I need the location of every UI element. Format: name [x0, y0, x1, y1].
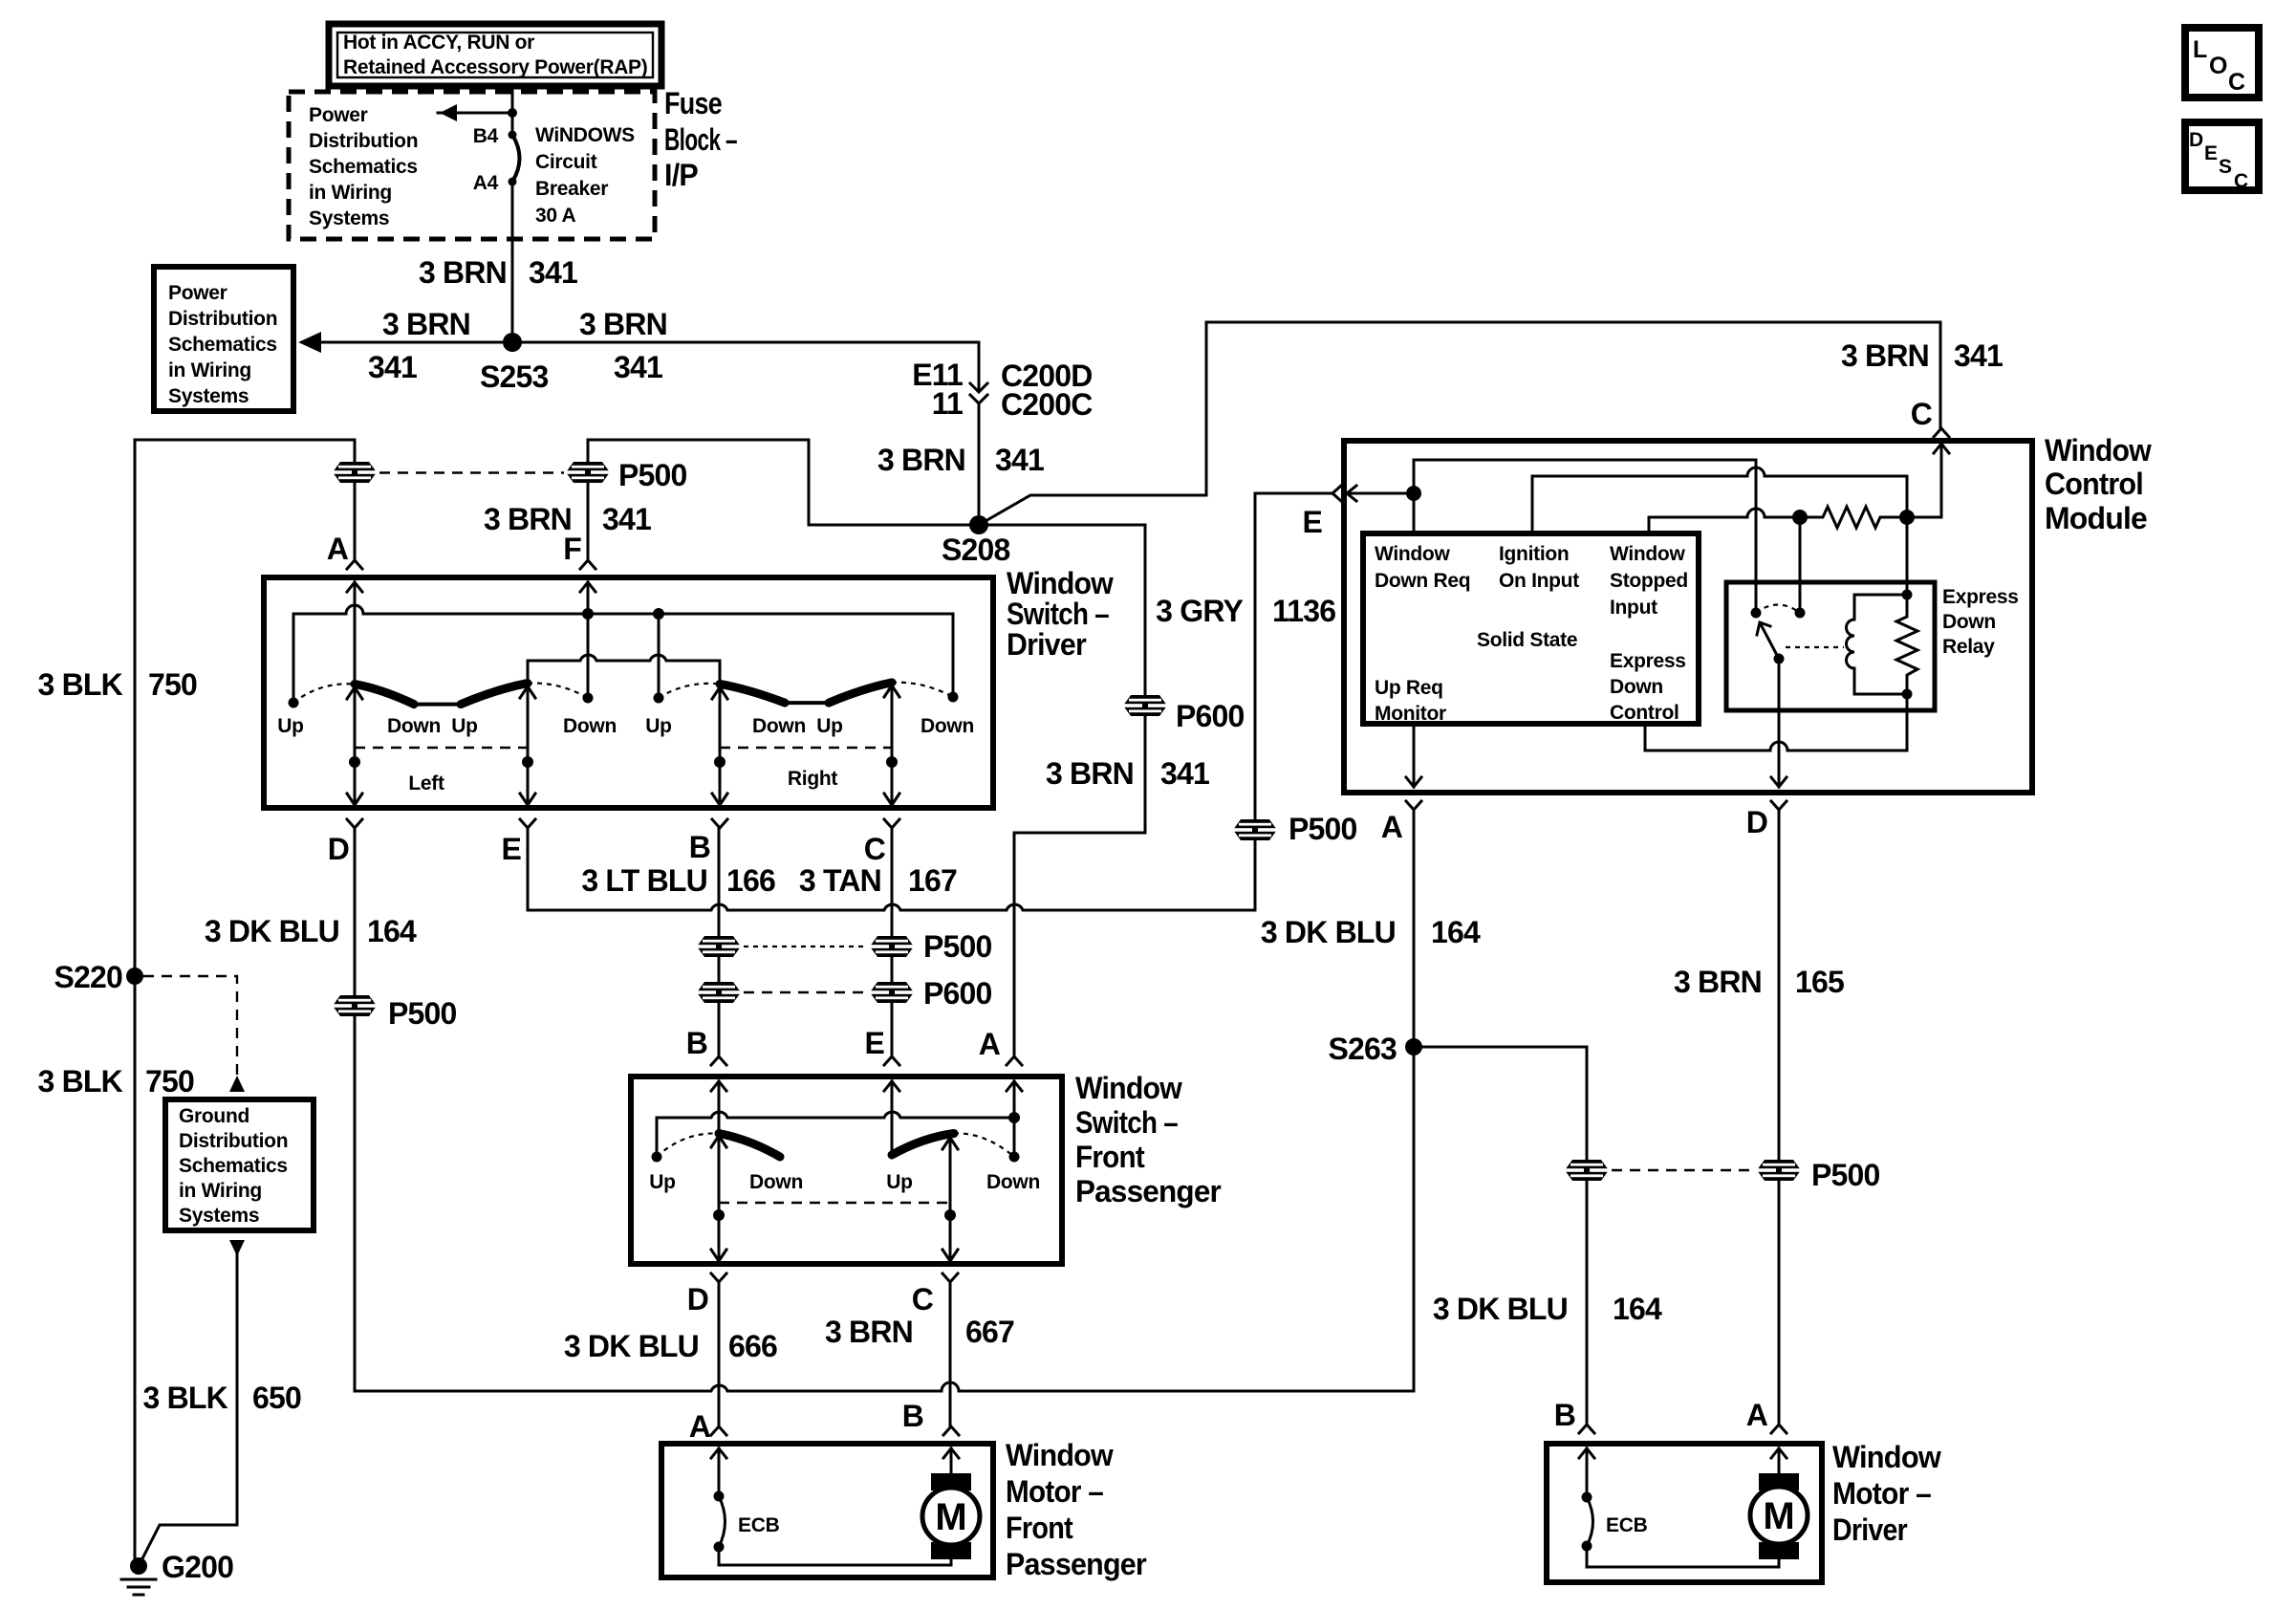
wire driver C pin down to passenger pin E [891, 828, 894, 1056]
pole B wire with arrows [712, 687, 727, 805]
wire window stopped input to resistor line [1649, 509, 1800, 533]
wire express down control to relay [1645, 694, 1907, 751]
svg-text:F: F [563, 532, 581, 566]
relay switch lever [1757, 622, 1779, 659]
svg-text:Hot in ACCY, RUN or: Hot in ACCY, RUN or [343, 32, 534, 54]
svg-text:Power: Power [168, 282, 227, 304]
resistor R1 [1800, 507, 1907, 528]
svg-text:E: E [1302, 505, 1322, 539]
right Down contact [1009, 1152, 1020, 1163]
dashed pairing line P500 [379, 471, 564, 473]
svg-text:3 BLK: 3 BLK [38, 1064, 123, 1099]
right rocker contacts switch [720, 683, 892, 703]
wire S263 branch to motor driver pin B [1414, 1047, 1587, 1425]
svg-text:164: 164 [1431, 915, 1481, 949]
svg-text:Distribution: Distribution [168, 308, 277, 330]
svg-text:A: A [979, 1027, 1001, 1061]
svg-text:Window: Window [1610, 543, 1685, 565]
pin B internal arrow [943, 1448, 959, 1476]
wire bus left end to Up contact [292, 614, 295, 703]
svg-text:341: 341 [368, 350, 417, 384]
svg-text:P600: P600 [923, 976, 992, 1011]
svg-text:750: 750 [148, 667, 197, 702]
svg-text:666: 666 [728, 1329, 777, 1363]
solid state labels [1375, 543, 1688, 725]
right rocker mechanical dashed link [720, 747, 892, 749]
svg-text:341: 341 [529, 255, 577, 290]
svg-text:P500: P500 [923, 929, 992, 964]
svg-text:Control: Control [1610, 702, 1679, 724]
wire ground loop: switch pin A up and left, down to G200 [135, 440, 355, 1566]
svg-text:L: L [2193, 36, 2207, 63]
fuse block dashed box [289, 92, 655, 239]
wire label 3 BRN 341 top right [1841, 338, 2003, 373]
pin C marker [1911, 397, 1949, 437]
wire E node up over to relay left contact [1414, 460, 1756, 613]
right rocker dashed travel [659, 684, 720, 698]
svg-text:D: D [687, 1282, 708, 1316]
svg-text:3 DK BLU: 3 DK BLU [1261, 915, 1396, 949]
relay common [1774, 654, 1785, 664]
ECB element driver [1582, 1492, 1648, 1552]
wire passenger D to motor A [718, 1282, 721, 1426]
connector P600 on C wire [870, 976, 992, 1011]
svg-text:B: B [686, 1026, 707, 1060]
wire S208 down through P600 to passenger pin A [1014, 525, 1145, 1056]
wire up req monitor to pin A [1406, 724, 1421, 787]
svg-text:Distribution: Distribution [179, 1130, 288, 1152]
svg-text:Control: Control [2045, 467, 2143, 501]
ECB to motor bottom wire [719, 1547, 951, 1565]
window switch driver box [264, 577, 993, 808]
svg-text:Up: Up [645, 715, 671, 737]
pin B internal arrow [1579, 1448, 1594, 1497]
svg-text:3 GRY: 3 GRY [1156, 594, 1243, 628]
svg-text:Monitor: Monitor [1375, 703, 1446, 725]
right rocker switch [892, 1134, 954, 1156]
svg-text:Fuse: Fuse [664, 86, 722, 120]
svg-text:Down: Down [752, 715, 806, 737]
mechanical dashed link [719, 1202, 950, 1204]
pin B internal arrow and wire [711, 1081, 726, 1134]
LOC box [2185, 28, 2259, 98]
relay coil L1 [1847, 590, 1913, 695]
pin E internal arrow and wire [884, 1081, 899, 1155]
ECB element [714, 1491, 780, 1553]
svg-text:Input: Input [1610, 597, 1657, 619]
svg-text:650: 650 [252, 1381, 301, 1415]
pin A marker [1746, 1398, 1787, 1433]
left rocker dashed travel [657, 1133, 719, 1157]
circuit breaker B4 terminal [509, 131, 517, 140]
svg-text:C: C [1911, 397, 1933, 431]
wire from hot box into fuse block [511, 87, 514, 135]
svg-text:667: 667 [965, 1315, 1014, 1349]
bus junction at F [582, 608, 594, 620]
wire S208 to window control module pin C [979, 322, 1940, 525]
svg-text:Passenger: Passenger [1006, 1547, 1146, 1581]
wire label 3 BLK 650 [143, 1381, 301, 1415]
DESC box [2185, 122, 2259, 192]
svg-text:Express: Express [1942, 586, 2019, 608]
connector P500 on 164 wire [1565, 1160, 1609, 1181]
svg-text:Passenger: Passenger [1075, 1174, 1221, 1208]
left rocker mechanical dashed link [355, 747, 528, 749]
express down relay label [1942, 586, 2019, 658]
svg-text:A: A [1381, 810, 1403, 844]
wire E node down to solid state [1413, 493, 1416, 533]
arrow to power distribution schematics [438, 104, 517, 121]
svg-text:3 BRN: 3 BRN [1841, 338, 1929, 373]
svg-text:A: A [689, 1409, 711, 1444]
ECB to motor bottom wire [1587, 1546, 1779, 1567]
svg-text:S263: S263 [1328, 1032, 1397, 1066]
circuit breaker A4 terminal [509, 178, 517, 186]
wire label 3 BRN 341 below P600 [1046, 756, 1209, 791]
connector P500 on 165 wire [1757, 1158, 1880, 1192]
bus junction right [653, 608, 664, 620]
svg-text:3 BRN: 3 BRN [579, 307, 667, 341]
svg-text:Systems: Systems [168, 385, 249, 407]
hot in ACCY box (double border) [329, 24, 661, 86]
svg-text:C: C [864, 832, 886, 866]
svg-text:D: D [328, 832, 349, 866]
svg-text:167: 167 [908, 863, 957, 898]
pin D marker [1746, 801, 1787, 839]
svg-text:3 BRN: 3 BRN [1046, 756, 1134, 791]
svg-text:M: M [935, 1496, 966, 1538]
pin F marker [563, 532, 596, 569]
wire driver B pin down to passenger pin B [718, 828, 721, 1056]
pin C marker [912, 1273, 958, 1316]
relay left contact [1751, 608, 1762, 619]
svg-text:S: S [2219, 156, 2232, 178]
svg-text:Schematics: Schematics [168, 334, 277, 356]
node S253 [503, 333, 522, 352]
pin A marker [1381, 801, 1421, 844]
svg-text:Front: Front [1075, 1140, 1145, 1174]
pin A internal arrow and wire [1007, 1081, 1022, 1157]
right Up contact [654, 693, 664, 704]
svg-text:Module: Module [2045, 501, 2147, 535]
svg-text:B: B [902, 1399, 923, 1433]
wire passenger C to motor B [949, 1282, 952, 1426]
svg-text:WiNDOWS: WiNDOWS [535, 124, 635, 146]
svg-text:341: 341 [614, 350, 662, 384]
wire label 3 BLK 750 upper [38, 667, 197, 702]
wire label 3 BRN 341 [419, 255, 577, 290]
window motor front passenger box [661, 1444, 993, 1577]
pin A marker [979, 1027, 1022, 1065]
window switch front passenger label [1075, 1071, 1221, 1208]
svg-text:M: M [1763, 1495, 1794, 1537]
internal bus to Up contact [657, 1112, 1014, 1118]
svg-text:S208: S208 [942, 533, 1010, 567]
dashed wire S220 to ground distribution box [143, 976, 237, 1075]
svg-text:Power: Power [309, 104, 368, 126]
pin E internal arrow and wire [1347, 486, 1421, 501]
svg-text:3 DK BLU: 3 DK BLU [205, 914, 339, 948]
svg-text:Down: Down [563, 715, 617, 737]
svg-text:ECB: ECB [1606, 1514, 1648, 1536]
power distribution note in fuse box [309, 104, 418, 229]
svg-text:Down: Down [387, 715, 441, 737]
svg-text:164: 164 [367, 914, 417, 948]
wire relay right contact [1799, 517, 1802, 613]
wire breaker to S253 [511, 182, 514, 342]
pin E marker [1302, 486, 1341, 539]
svg-text:I/P: I/P [664, 158, 698, 192]
svg-text:Down: Down [1610, 676, 1663, 698]
ground G200 [121, 1550, 233, 1595]
svg-text:Front: Front [1006, 1511, 1073, 1545]
svg-text:C: C [2234, 170, 2248, 192]
wire label 3 DK BLU 164 lower [1433, 1292, 1662, 1326]
svg-text:Up: Up [816, 715, 842, 737]
svg-text:750: 750 [145, 1064, 194, 1099]
pin F internal arrow and wire [580, 582, 596, 614]
svg-text:Window: Window [1375, 543, 1450, 565]
connector C200D / C200C (E11 / 11) [970, 342, 987, 403]
right throws bus from E contact [528, 655, 720, 684]
wire S253 to E11 connector [512, 342, 979, 384]
right rocker dashed travel [954, 1133, 1014, 1157]
pin B marker [1554, 1398, 1594, 1433]
window control module box [1344, 441, 2032, 793]
pin A internal arrow [711, 1448, 726, 1496]
wire label 3 BRN 341 on F wire [484, 502, 651, 536]
wire label 3 BRN 341 above S208 [877, 443, 1044, 477]
svg-text:Right: Right [788, 768, 837, 790]
svg-text:Up Req: Up Req [1375, 677, 1443, 699]
svg-text:341: 341 [1160, 756, 1209, 791]
svg-text:341: 341 [995, 443, 1044, 477]
left Down contact [583, 693, 594, 704]
wire label 3 DK BLU 666 [564, 1329, 777, 1363]
pin C internal arrow and wire [1907, 444, 1949, 517]
svg-text:P600: P600 [1176, 699, 1245, 733]
svg-text:166: 166 [726, 863, 775, 898]
dashed pairing line P500 mid [744, 946, 868, 947]
window motor driver label [1832, 1440, 1941, 1547]
pin A marker [689, 1409, 726, 1444]
node S208 [809, 524, 1145, 527]
left rocker switch [719, 1134, 780, 1158]
connector P500 on F wire [566, 458, 687, 492]
svg-text:Window: Window [2045, 433, 2152, 468]
window switch driver label [1007, 566, 1114, 662]
svg-text:Distribution: Distribution [309, 130, 418, 152]
svg-text:Driver: Driver [1007, 627, 1086, 662]
svg-text:S220: S220 [54, 960, 122, 994]
wire label 3 GRY 1136 [1156, 594, 1335, 628]
svg-text:Down: Down [986, 1171, 1040, 1193]
svg-text:P500: P500 [1289, 812, 1357, 846]
left rocker contacts switch [355, 684, 528, 705]
svg-text:C: C [2228, 69, 2245, 96]
connector P600 on 3 BRN wire [1123, 695, 1245, 733]
svg-text:3 BRN: 3 BRN [382, 307, 470, 341]
wire F pin loop to S208 [588, 440, 809, 560]
relay resistor R2 [1896, 595, 1917, 700]
window motor driver box [1547, 1444, 1822, 1582]
wire label 3 BRN 341 left of S253 [368, 307, 470, 384]
svg-text:3 DK BLU: 3 DK BLU [1433, 1292, 1568, 1326]
wire ignition input to resistor node [1532, 468, 1907, 533]
svg-text:G200: G200 [162, 1550, 233, 1584]
svg-text:3 BRN: 3 BRN [825, 1315, 913, 1349]
pole E wire with arrows [520, 686, 535, 805]
svg-text:E: E [2204, 142, 2218, 164]
svg-text:Schematics: Schematics [179, 1155, 288, 1177]
pole D wire with arrows [711, 1136, 726, 1261]
pin E marker [501, 819, 535, 866]
svg-text:1136: 1136 [1272, 594, 1335, 628]
svg-text:Down: Down [749, 1171, 803, 1193]
pin E marker [864, 1026, 899, 1065]
pin A marker [327, 532, 362, 569]
wire label 3 DK BLU 164 right [1261, 915, 1481, 949]
svg-text:Down: Down [921, 715, 974, 737]
pin D marker [687, 1273, 726, 1316]
svg-text:O: O [2209, 53, 2227, 79]
svg-text:Solid State: Solid State [1477, 629, 1577, 651]
power distribution schematics box (left) [154, 267, 293, 411]
node S220 [126, 968, 143, 985]
svg-text:ECB: ECB [738, 1514, 780, 1536]
wire resistor node down to relay coil [1906, 517, 1909, 595]
svg-text:Ground: Ground [179, 1105, 249, 1127]
wire bus to right Up contact [658, 614, 661, 698]
left rocker dashed travel [293, 684, 355, 703]
svg-text:S253: S253 [480, 359, 549, 394]
svg-text:Switch –: Switch – [1007, 597, 1109, 631]
svg-text:Up: Up [451, 715, 477, 737]
internal feed bus from F [293, 605, 953, 614]
node S263 [1405, 1038, 1422, 1055]
wire label 3 BLK 750 lower [38, 1064, 194, 1099]
svg-text:Relay: Relay [1942, 636, 1995, 658]
svg-text:3 DK BLU: 3 DK BLU [564, 1329, 699, 1363]
svg-text:P500: P500 [618, 458, 687, 492]
svg-text:Up: Up [886, 1171, 912, 1193]
svg-text:341: 341 [1954, 338, 2003, 373]
ground distribution schematics box [165, 1099, 314, 1230]
svg-text:On Input: On Input [1499, 570, 1579, 592]
svg-text:Systems: Systems [179, 1205, 259, 1227]
svg-text:D: D [2189, 129, 2203, 151]
left Up contact [289, 698, 299, 708]
svg-text:Window: Window [1075, 1071, 1182, 1105]
svg-text:B: B [1554, 1398, 1575, 1432]
wire labels 3 LT BLU 166 / 3 TAN 167 [581, 863, 957, 898]
window switch front passenger box [631, 1077, 1062, 1264]
pin A internal arrow [1771, 1448, 1787, 1476]
wire label 3 BRN 341 right of S253 [579, 307, 667, 384]
svg-text:30 A: 30 A [535, 205, 576, 227]
wire bus right end to right Down contact [952, 614, 955, 697]
svg-text:Block –: Block – [664, 122, 737, 157]
svg-text:Down: Down [1942, 611, 1996, 633]
pole D wire with arrows [347, 687, 362, 805]
pole C wire with arrows [884, 685, 899, 805]
svg-text:P500: P500 [388, 996, 457, 1031]
dashed pairing line P500 lower [1612, 1169, 1754, 1171]
svg-text:Window: Window [1006, 1438, 1114, 1472]
svg-text:3 BRN: 3 BRN [1674, 965, 1762, 999]
pole C wire with arrows [942, 1138, 958, 1261]
express down relay box [1726, 582, 1935, 710]
svg-text:B: B [689, 830, 710, 864]
circuit breaker element [512, 135, 520, 182]
relay right contact [1795, 608, 1806, 619]
wire relay common to pin D [1771, 659, 1787, 787]
svg-text:Motor –: Motor – [1006, 1474, 1103, 1509]
pin D marker [328, 819, 362, 866]
wire ground box to G200 [229, 1240, 245, 1256]
svg-text:3 LT BLU: 3 LT BLU [581, 863, 707, 898]
svg-text:in Wiring: in Wiring [309, 182, 392, 204]
relay actuation dashed [1786, 646, 1844, 648]
svg-text:Left: Left [408, 772, 444, 794]
window motor front passenger label [1006, 1438, 1146, 1581]
right Down contact [948, 692, 959, 703]
pin B marker [686, 1026, 726, 1065]
svg-text:P500: P500 [1811, 1158, 1880, 1192]
connector P500 on 3 GRY wire [1233, 812, 1357, 846]
wire module pin D down to motor driver pin A [1778, 810, 1781, 1425]
svg-text:Driver: Driver [1832, 1512, 1907, 1547]
solid state box [1363, 533, 1699, 724]
switch position labels [649, 1171, 1040, 1193]
svg-text:11: 11 [932, 386, 963, 421]
connector P600 on B wire [697, 982, 741, 1003]
fuse block label [664, 86, 737, 192]
wire module pin A down to 164 run [1413, 810, 1416, 1391]
svg-text:Retained Accessory Power(RAP): Retained Accessory Power(RAP) [343, 56, 647, 78]
svg-text:Motor –: Motor – [1832, 1476, 1931, 1511]
svg-text:Up: Up [649, 1171, 675, 1193]
svg-text:Window: Window [1832, 1440, 1941, 1474]
svg-text:3 BRN: 3 BRN [877, 443, 965, 477]
svg-text:A: A [327, 532, 349, 566]
svg-text:E: E [864, 1026, 884, 1060]
svg-text:Down Req: Down Req [1375, 570, 1470, 592]
relay contact dashed travel [1756, 605, 1800, 614]
switch position labels [277, 715, 974, 737]
dashed pairing line P600 mid [744, 991, 868, 993]
svg-text:3 BLK: 3 BLK [38, 667, 123, 702]
svg-text:Systems: Systems [309, 207, 389, 229]
connector P500 on ground wire (pin A) [333, 462, 377, 483]
svg-text:Express: Express [1610, 650, 1686, 672]
wire label 3 BRN 667 [825, 1315, 1014, 1349]
motor M driver [1750, 1473, 1808, 1559]
pin C marker [864, 819, 899, 866]
svg-text:A4: A4 [473, 172, 499, 194]
motor M front passenger [922, 1473, 980, 1559]
svg-text:Switch –: Switch – [1075, 1105, 1178, 1140]
svg-text:B4: B4 [473, 125, 499, 147]
svg-text:Schematics: Schematics [309, 156, 418, 178]
svg-text:3 BRN: 3 BRN [419, 255, 507, 290]
pin B marker [689, 819, 727, 864]
wire label 3 BRN 165 [1674, 965, 1844, 999]
svg-text:Ignition: Ignition [1499, 543, 1569, 565]
pin A internal arrow and wire [347, 582, 362, 685]
window control module label [2045, 433, 2152, 535]
left Up contact [652, 1152, 662, 1163]
